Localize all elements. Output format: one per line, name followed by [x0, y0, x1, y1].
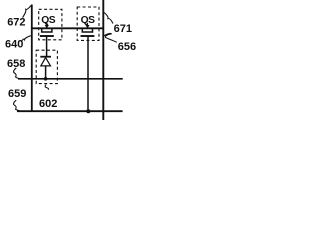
leader squiggle 672 [23, 5, 32, 17]
wire bottom horizontal line (net 659) [17, 110, 123, 112]
svg-text:602: 602 [39, 98, 57, 110]
wire diode anode lead [45, 66, 47, 79]
leader squiggle 640 [21, 36, 31, 42]
dashed box QS sensor 1 [39, 9, 62, 40]
leader squiggle 659 [14, 100, 20, 111]
junction dot diode anode on net 658 [44, 77, 48, 81]
arrow of sensor 1 [45, 23, 49, 29]
dashed box QS sensor 2 [77, 7, 99, 40]
transistor Q2 gate bar [81, 35, 95, 37]
wire Q1 gate lead to diode cathode [46, 37, 48, 57]
svg-text:QS: QS [41, 15, 56, 26]
svg-text:640: 640 [5, 39, 23, 51]
transistor Q1 gate bar [40, 35, 54, 37]
wire middle horizontal line (net 658) [18, 78, 123, 80]
wire top horizontal row line [32, 27, 104, 29]
arrow of sensor 2 [85, 23, 89, 29]
diode D602 triangle [41, 58, 51, 66]
dashed box diode 602 [36, 50, 57, 83]
leader squiggle 671 [104, 13, 113, 24]
svg-text:659: 659 [8, 88, 26, 100]
svg-text:672: 672 [7, 17, 25, 29]
wire Q2 gate lead down to bottom line [87, 37, 89, 112]
svg-text:671: 671 [114, 23, 132, 35]
leader squiggle 658 [14, 68, 20, 79]
transistor Q1 channel U [42, 29, 52, 32]
junction dot Q2 gate on net 659 [86, 109, 90, 113]
wire right vertical bus (net 671) [102, 0, 104, 120]
leader squiggle 656 [104, 33, 117, 42]
transistor Q2 channel U [82, 29, 92, 32]
diode D602 cathode bar [40, 56, 51, 58]
leader squiggle 602 [45, 85, 48, 90]
svg-text:656: 656 [118, 41, 136, 53]
wire left vertical bus (net 672/640) [31, 5, 33, 112]
